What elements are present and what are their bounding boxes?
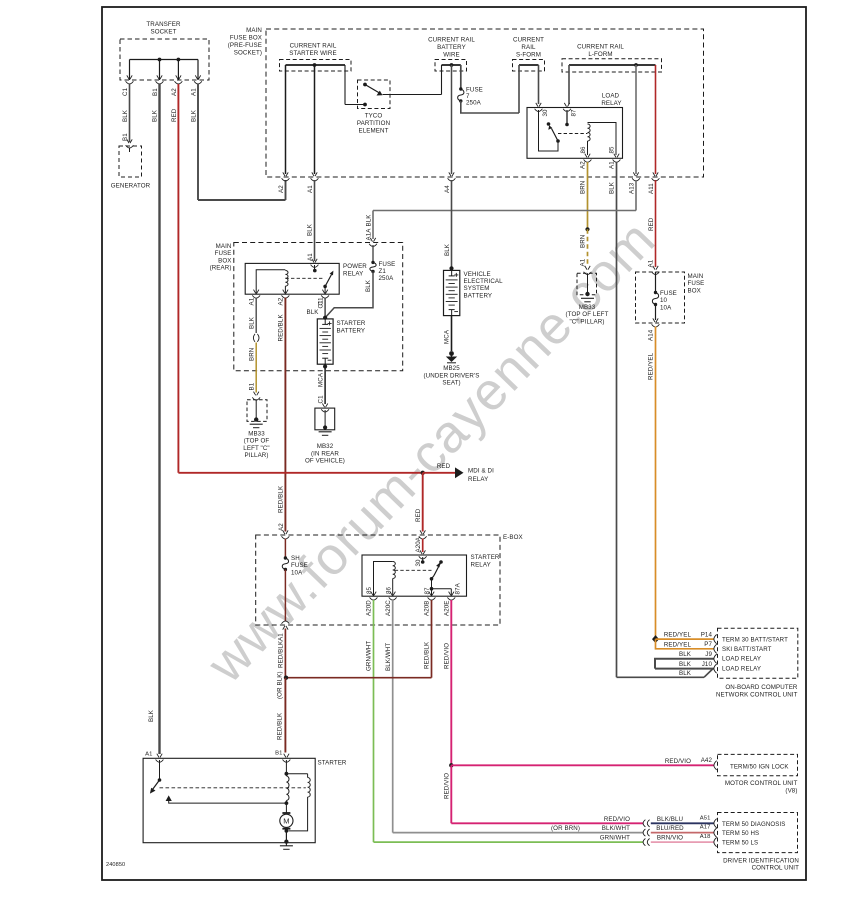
svg-text:STARTER WIRE: STARTER WIRE xyxy=(289,50,336,57)
svg-text:FUSE BOX: FUSE BOX xyxy=(230,35,262,42)
svg-text:SEAT): SEAT) xyxy=(442,380,460,387)
svg-text:STARTER: STARTER xyxy=(318,760,347,767)
wire BLK transfer C1 to generator xyxy=(122,84,130,142)
svg-text:A2: A2 xyxy=(278,297,285,305)
svg-text:BLK/WHT: BLK/WHT xyxy=(385,643,392,671)
load relay pin 30 xyxy=(535,103,549,117)
starter relay pin 87A / A20E xyxy=(444,592,456,616)
starter xyxy=(143,758,347,842)
wire pre-fuse A2 rail drop xyxy=(285,65,287,174)
svg-text:SOCKET): SOCKET) xyxy=(234,50,262,57)
power relay internal switch xyxy=(285,265,333,294)
transfer socket pin A2 xyxy=(171,75,182,96)
main fuse box (rear) xyxy=(210,243,403,371)
svg-text:SH: SH xyxy=(291,555,300,562)
wire BLK power relay C1 to starter battery xyxy=(307,298,326,318)
starter internal switch xyxy=(150,760,306,803)
svg-text:30: 30 xyxy=(415,559,422,567)
wire MCA starter battery to MB32 xyxy=(317,364,327,404)
svg-text:A13: A13 xyxy=(629,182,636,194)
svg-text:10: 10 xyxy=(660,297,668,304)
svg-text:RED/VIO: RED/VIO xyxy=(444,773,451,799)
svg-text:250A: 250A xyxy=(466,100,482,107)
svg-text:M: M xyxy=(283,817,289,826)
svg-text:A1: A1 xyxy=(307,185,314,193)
svg-text:POWER: POWER xyxy=(343,263,367,270)
starter relay xyxy=(362,554,500,596)
wire RED/VIO starter relay 87A down xyxy=(444,600,452,765)
svg-text:RED: RED xyxy=(437,463,451,470)
svg-text:MCA: MCA xyxy=(444,329,451,344)
wire RED/BLK starter relay 87 to starter B1 xyxy=(286,600,431,678)
svg-text:DRIVER IDENTIFICATION: DRIVER IDENTIFICATION xyxy=(723,857,799,864)
svg-text:BLK/WHT: BLK/WHT xyxy=(602,825,630,832)
e-box pin A2 entry xyxy=(282,530,290,539)
svg-text:TERM 50 DIAGNOSIS: TERM 50 DIAGNOSIS xyxy=(722,821,785,828)
starter pin B1 xyxy=(283,754,291,763)
svg-text:BLK: BLK xyxy=(365,279,372,292)
svg-text:RED/BLK: RED/BLK xyxy=(278,314,285,342)
svg-text:A1: A1 xyxy=(249,297,256,305)
svg-text:(UNDER DRIVER'S: (UNDER DRIVER'S xyxy=(424,372,480,379)
pre-fuse pin A13 xyxy=(629,172,640,194)
svg-text:BLK: BLK xyxy=(679,661,692,668)
svg-text:LOAD RELAY: LOAD RELAY xyxy=(722,665,761,672)
wire RED/BLK e-box A1 to starter B1 xyxy=(275,629,288,757)
svg-text:CURRENT RAIL: CURRENT RAIL xyxy=(428,37,475,44)
pre-fuse pin A2 xyxy=(278,172,289,193)
wire BLK pre-fuse A1 to power relay xyxy=(307,180,315,261)
svg-text:A20E: A20E xyxy=(444,600,451,616)
starter relay pin 85 / A20D xyxy=(366,592,378,616)
svg-text:MOTOR CONTROL UNIT: MOTOR CONTROL UNIT xyxy=(725,780,798,787)
svg-text:A1: A1 xyxy=(609,161,616,169)
motor control unit (V8) xyxy=(718,754,798,794)
wire BLK pre-fuse A13 to rear fuse box A1A xyxy=(365,180,636,241)
svg-text:J10: J10 xyxy=(702,661,713,668)
svg-text:RED/VIO: RED/VIO xyxy=(444,643,451,669)
svg-text:85: 85 xyxy=(366,586,373,594)
fuse SH 10A xyxy=(282,539,308,622)
svg-text:A1: A1 xyxy=(145,752,152,758)
starter ground xyxy=(280,842,293,850)
wire BLU/RED to pin A17 xyxy=(551,825,717,838)
current rail starter wire xyxy=(280,43,365,105)
wire GRN/WHT starter relay 85 to driver id unit xyxy=(366,600,643,842)
svg-text:STARTER: STARTER xyxy=(471,554,500,561)
wire BLK/WHT starter relay 86 to driver id unit xyxy=(385,600,643,833)
wire tyco to battery rail xyxy=(383,94,442,96)
ground MB33 (top of left C pillar) right xyxy=(566,266,609,326)
svg-text:GRN/WHT: GRN/WHT xyxy=(366,641,373,671)
transfer socket internal bus wire xyxy=(130,58,199,80)
svg-text:RED/BLK: RED/BLK xyxy=(277,712,284,740)
svg-text:B1: B1 xyxy=(152,88,159,96)
pre-fuse pin A1 xyxy=(307,172,318,193)
svg-text:A11: A11 xyxy=(648,183,655,194)
svg-text:TYCO: TYCO xyxy=(365,113,383,120)
svg-text:TERM 30 BATT/START: TERM 30 BATT/START xyxy=(722,636,788,643)
svg-text:P7: P7 xyxy=(704,641,712,648)
svg-text:BLK: BLK xyxy=(122,109,129,122)
wire RED/VIO down to driver id unit xyxy=(444,765,644,823)
svg-text:240850: 240850 xyxy=(106,862,125,868)
svg-text:TRANSFER: TRANSFER xyxy=(146,21,181,28)
svg-text:87A: 87A xyxy=(455,582,462,594)
svg-text:ELEMENT: ELEMENT xyxy=(359,128,389,135)
svg-text:A1: A1 xyxy=(278,633,285,641)
svg-text:ON-BOARD COMPUTER: ON-BOARD COMPUTER xyxy=(725,684,798,691)
wire BLK/BLU to pin A51 xyxy=(643,815,717,828)
svg-text:L-FORM: L-FORM xyxy=(588,51,612,58)
svg-text:BLK: BLK xyxy=(191,109,198,122)
svg-text:(TOP OF LEFT: (TOP OF LEFT xyxy=(566,311,609,318)
svg-text:RED: RED xyxy=(171,108,178,122)
svg-text:RED/YEL: RED/YEL xyxy=(648,352,655,380)
wire RED transfer A2 down xyxy=(171,84,179,473)
transfer socket pin A1 xyxy=(191,75,202,96)
starter relay pin 86 / A20C xyxy=(385,592,397,616)
svg-text:A20D: A20D xyxy=(366,600,373,616)
svg-text:RELAY: RELAY xyxy=(601,100,621,107)
svg-text:PILLAR): PILLAR) xyxy=(244,452,268,459)
e-box pin A20A entry xyxy=(415,530,427,552)
svg-text:RED/BLK: RED/BLK xyxy=(278,640,285,668)
fuse Z1 250A xyxy=(365,238,395,292)
wire RED to MDI & DI relay xyxy=(178,463,494,483)
main fuse box (pre-fuse socket) xyxy=(228,27,704,177)
e-box pin A1 exit xyxy=(278,621,290,641)
svg-text:GRN/WHT: GRN/WHT xyxy=(600,835,630,842)
power relay pin A1 bottom xyxy=(249,290,261,306)
fuse 7 250A xyxy=(458,87,483,107)
wire RED/BLK power relay A2 to e-box xyxy=(278,298,286,532)
svg-text:RED: RED xyxy=(415,508,422,522)
transfer socket pin C1 xyxy=(122,75,133,96)
wire BLK transfer A1 to pre-fuse A2 xyxy=(191,84,286,200)
wire MCA vehicle battery to MB25 xyxy=(444,316,452,351)
svg-text:BLK: BLK xyxy=(609,181,616,194)
wire RED junction to e-box A20A xyxy=(415,473,423,532)
svg-text:A4: A4 xyxy=(444,185,451,193)
wire RED/YEL to pin P14 xyxy=(652,631,717,643)
svg-text:MAIN: MAIN xyxy=(688,273,704,280)
svg-text:BATTERY: BATTERY xyxy=(337,328,366,335)
svg-text:A20C: A20C xyxy=(385,600,392,616)
svg-text:250A: 250A xyxy=(379,275,395,282)
svg-text:A20A: A20A xyxy=(415,536,422,552)
wire BRN/VIO to pin A18 xyxy=(600,834,717,847)
load relay xyxy=(527,93,623,159)
svg-text:GENERATOR: GENERATOR xyxy=(111,183,151,190)
starter motor M xyxy=(280,803,293,844)
pre-fuse pin A4 xyxy=(444,172,455,193)
svg-text:A1: A1 xyxy=(580,258,587,266)
svg-text:BLK: BLK xyxy=(679,651,692,658)
svg-text:TERM 50 HS: TERM 50 HS xyxy=(722,830,759,837)
svg-text:BLK: BLK xyxy=(307,309,320,316)
svg-text:PARTITION: PARTITION xyxy=(357,120,390,127)
transfer socket pin B1 xyxy=(152,75,163,96)
current rail L-form xyxy=(562,44,662,175)
svg-text:BRN: BRN xyxy=(580,181,587,194)
ground MB33 (top of left C pillar) left xyxy=(243,392,269,460)
svg-text:BLU/RED: BLU/RED xyxy=(656,825,684,832)
svg-text:FUSE: FUSE xyxy=(291,562,308,569)
wire RED pre-fuse A11 to main fuse box xyxy=(648,180,656,268)
svg-text:86: 86 xyxy=(580,146,587,154)
wire fuse 7 to S-form rail xyxy=(461,101,519,113)
wire RED/YEL to pin P7 xyxy=(656,639,717,653)
svg-text:BATTERY: BATTERY xyxy=(437,44,466,51)
svg-text:FUSE: FUSE xyxy=(688,280,705,287)
fuse 10 10A xyxy=(652,272,677,320)
svg-text:ELECTRICAL: ELECTRICAL xyxy=(464,278,504,285)
svg-text:P14: P14 xyxy=(701,631,713,638)
svg-text:BLK: BLK xyxy=(148,709,155,722)
svg-text:BRN: BRN xyxy=(248,348,255,361)
transfer socket box xyxy=(120,21,209,80)
svg-text:C1: C1 xyxy=(122,87,129,96)
svg-text:BOX: BOX xyxy=(688,287,701,294)
svg-text:TERM/50 IGN LOCK: TERM/50 IGN LOCK xyxy=(730,763,789,770)
svg-text:(V8): (V8) xyxy=(785,788,797,795)
power relay pin A1 top xyxy=(307,253,318,268)
svg-text:(OR BRN): (OR BRN) xyxy=(551,825,580,832)
svg-text:BLK: BLK xyxy=(248,316,255,329)
svg-text:RED/YEL: RED/YEL xyxy=(664,641,692,648)
svg-text:30: 30 xyxy=(542,109,549,117)
svg-text:FUSE: FUSE xyxy=(660,290,677,297)
svg-text:BLK/BLU: BLK/BLU xyxy=(657,816,683,823)
svg-text:CURRENT: CURRENT xyxy=(513,37,544,44)
starter battery xyxy=(317,316,366,365)
svg-text:A1: A1 xyxy=(191,88,198,96)
svg-text:A20B: A20B xyxy=(424,600,431,616)
power relay pin A2 bottom xyxy=(278,290,290,306)
svg-text:A2: A2 xyxy=(580,161,587,169)
svg-text:SKI BATT/START: SKI BATT/START xyxy=(722,646,772,653)
svg-text:LOAD RELAY: LOAD RELAY xyxy=(722,656,761,663)
wire BLK load relay A1 to on-board computer xyxy=(609,162,714,677)
svg-text:C1: C1 xyxy=(317,395,324,404)
svg-text:MB33: MB33 xyxy=(248,431,265,438)
wire RED/YEL fuse 10 to on-board computer xyxy=(648,327,656,640)
svg-text:LOAD: LOAD xyxy=(602,93,620,100)
wire BLK/BRN power relay A1 to MB33 left xyxy=(248,298,259,393)
current rail S-form xyxy=(513,37,545,114)
starter pin A1 xyxy=(145,752,163,763)
wire RED/VIO to pin A42 xyxy=(449,757,717,770)
starter relay internal switch xyxy=(395,557,452,596)
load relay pin 87 xyxy=(563,103,577,117)
svg-text:RELAY: RELAY xyxy=(468,476,488,483)
svg-text:BLK: BLK xyxy=(307,223,314,236)
svg-text:RAIL: RAIL xyxy=(521,44,536,51)
wire BRN load relay A2 to MB33 xyxy=(580,162,590,267)
svg-text:CURRENT RAIL: CURRENT RAIL xyxy=(290,43,337,50)
svg-text:BRN: BRN xyxy=(580,235,587,248)
generator xyxy=(111,133,151,190)
wire BLK pre-fuse A4 to vehicle battery xyxy=(444,180,452,268)
on-board computer network control unit xyxy=(716,628,798,698)
svg-text:MDI & DI: MDI & DI xyxy=(468,468,494,475)
svg-text:RED/VIO: RED/VIO xyxy=(665,758,691,765)
svg-text:STARTER: STARTER xyxy=(337,320,366,327)
svg-text:BLK: BLK xyxy=(679,670,692,677)
main fuse box (right) xyxy=(636,266,705,323)
svg-text:(PRE-FUSE: (PRE-FUSE xyxy=(228,42,262,49)
power relay coil xyxy=(256,270,288,295)
svg-text:A51: A51 xyxy=(700,815,711,821)
svg-text:RED/YEL: RED/YEL xyxy=(664,632,692,639)
svg-text:MAIN: MAIN xyxy=(216,243,232,250)
wire BLK transfer B1 down to starter A1 xyxy=(148,84,160,754)
svg-text:RED/BLK: RED/BLK xyxy=(424,641,431,669)
svg-text:RED: RED xyxy=(648,217,655,231)
svg-text:(REAR): (REAR) xyxy=(210,265,232,272)
svg-text:87: 87 xyxy=(570,109,577,117)
svg-text:C1: C1 xyxy=(317,300,324,309)
svg-text:A18: A18 xyxy=(700,834,711,840)
svg-text:(TOP OF: (TOP OF xyxy=(244,438,270,445)
svg-text:BLK: BLK xyxy=(365,214,372,227)
vehicle electrical system battery xyxy=(444,266,504,315)
svg-text:OF VEHICLE): OF VEHICLE) xyxy=(305,458,345,465)
svg-text:BRN/VIO: BRN/VIO xyxy=(657,835,683,842)
driver identification control unit xyxy=(718,813,800,872)
svg-text:MB25: MB25 xyxy=(443,365,460,372)
svg-text:TERM 50 LS: TERM 50 LS xyxy=(722,840,758,847)
svg-text:B1: B1 xyxy=(122,133,129,141)
svg-text:A1: A1 xyxy=(648,259,655,267)
svg-text:A17: A17 xyxy=(700,825,711,831)
starter relay pin 87 / A20B xyxy=(424,592,436,616)
svg-text:MCA: MCA xyxy=(317,372,324,387)
svg-text:85: 85 xyxy=(609,146,616,154)
svg-text:A2: A2 xyxy=(278,185,285,193)
starter relay pin 30 xyxy=(415,550,427,566)
load relay pin 85 / A1 xyxy=(609,154,621,169)
main fuse box A14 pin xyxy=(648,318,660,341)
svg-text:A14: A14 xyxy=(648,329,655,341)
svg-text:BATTERY: BATTERY xyxy=(464,292,493,299)
svg-text:B1: B1 xyxy=(275,751,282,757)
svg-text:NETWORK CONTROL UNIT: NETWORK CONTROL UNIT xyxy=(716,692,798,699)
svg-text:FUSE: FUSE xyxy=(379,261,396,268)
svg-text:RED/VIO: RED/VIO xyxy=(604,816,630,823)
ground MB25 (under drivers seat) xyxy=(424,351,480,387)
wire fuse Z1 to starter battery + xyxy=(325,272,373,318)
svg-text:S-FORM: S-FORM xyxy=(516,52,541,59)
starter solenoid windings xyxy=(285,760,311,831)
svg-text:BLK: BLK xyxy=(444,243,451,256)
svg-text:Z1: Z1 xyxy=(379,268,387,275)
load relay pin 86 / A2 xyxy=(580,154,592,169)
svg-text:RED/BLK: RED/BLK xyxy=(278,485,285,513)
svg-text:RELAY: RELAY xyxy=(343,271,363,278)
power relay pin C1 bottom xyxy=(317,290,329,306)
pre-fuse pin A11 xyxy=(648,172,659,194)
svg-text:10A: 10A xyxy=(291,569,303,576)
svg-text:E-BOX: E-BOX xyxy=(503,534,523,541)
svg-text:BOX: BOX xyxy=(218,257,231,264)
svg-text:A42: A42 xyxy=(701,757,713,764)
svg-text:LEFT "C": LEFT "C" xyxy=(243,445,269,452)
current rail battery wire xyxy=(428,37,475,95)
svg-text:B1: B1 xyxy=(249,382,256,390)
svg-text:A2: A2 xyxy=(278,523,285,531)
svg-text:MB33: MB33 xyxy=(579,304,596,311)
wire BLK pin J10 xyxy=(655,661,717,677)
svg-text:WIRE: WIRE xyxy=(443,52,460,59)
svg-text:VEHICLE: VEHICLE xyxy=(464,271,491,278)
wire RED A20A to starter relay 30 xyxy=(422,539,424,553)
svg-text:A2: A2 xyxy=(171,88,178,96)
svg-text:86: 86 xyxy=(385,586,392,594)
svg-text:MAIN: MAIN xyxy=(246,27,262,34)
load relay coil xyxy=(580,123,616,156)
svg-text:J9: J9 xyxy=(705,651,712,658)
load relay internal switch xyxy=(539,110,588,151)
svg-text:10A: 10A xyxy=(660,304,672,311)
wire pre-fuse A1 rail drop xyxy=(314,65,316,174)
svg-text:MB32: MB32 xyxy=(317,443,334,450)
wire pre-fuse A4 rail drop xyxy=(451,65,453,174)
svg-text:RELAY: RELAY xyxy=(471,562,491,569)
ground MB32 (in rear of vehicle) xyxy=(305,404,345,465)
svg-text:SOCKET: SOCKET xyxy=(150,29,176,36)
svg-text:A1: A1 xyxy=(307,253,314,261)
svg-text:CONTROL UNIT: CONTROL UNIT xyxy=(752,864,799,871)
svg-text:(IN REAR: (IN REAR xyxy=(311,450,339,457)
e-box xyxy=(256,534,523,625)
svg-text:FUSE: FUSE xyxy=(215,250,232,257)
starter relay coil xyxy=(366,562,461,597)
wire BLK jumper pin J9 xyxy=(655,651,717,669)
svg-text:"C" PILLAR): "C" PILLAR) xyxy=(569,318,604,325)
svg-text:(OR BLK): (OR BLK) xyxy=(277,671,284,699)
tyco partition element xyxy=(357,80,390,135)
svg-text:SYSTEM: SYSTEM xyxy=(464,285,490,292)
power relay xyxy=(245,263,367,294)
svg-text:BLK: BLK xyxy=(152,109,159,122)
svg-text:A1A: A1A xyxy=(365,228,372,241)
svg-text:CURRENT RAIL: CURRENT RAIL xyxy=(577,44,624,51)
